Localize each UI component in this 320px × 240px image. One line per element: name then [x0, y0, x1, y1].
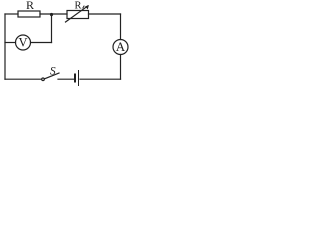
- svg-text:V: V: [18, 36, 27, 50]
- svg-text:R: R: [74, 1, 81, 12]
- svg-text:A: A: [116, 39, 126, 54]
- svg-text:R: R: [26, 0, 34, 12]
- svg-text:S: S: [50, 66, 56, 78]
